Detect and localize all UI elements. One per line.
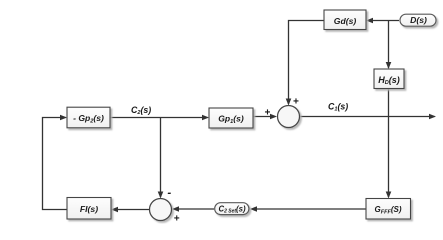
svg-text:HD(s): HD(s) bbox=[378, 75, 400, 86]
svg-text:+: + bbox=[264, 108, 270, 119]
svg-text:+: + bbox=[174, 214, 180, 224]
svg-text:Gd(s): Gd(s) bbox=[334, 16, 357, 26]
svg-text:D(s): D(s) bbox=[410, 15, 427, 25]
svg-text:-: - bbox=[167, 188, 171, 200]
svg-text:C1(s): C1(s) bbox=[328, 101, 348, 112]
svg-text:FI(s): FI(s) bbox=[80, 204, 98, 214]
svg-text:C2(s): C2(s) bbox=[131, 105, 151, 116]
svg-text:+: + bbox=[293, 97, 299, 108]
svg-text:- Gp2(s): - Gp2(s) bbox=[73, 113, 104, 124]
